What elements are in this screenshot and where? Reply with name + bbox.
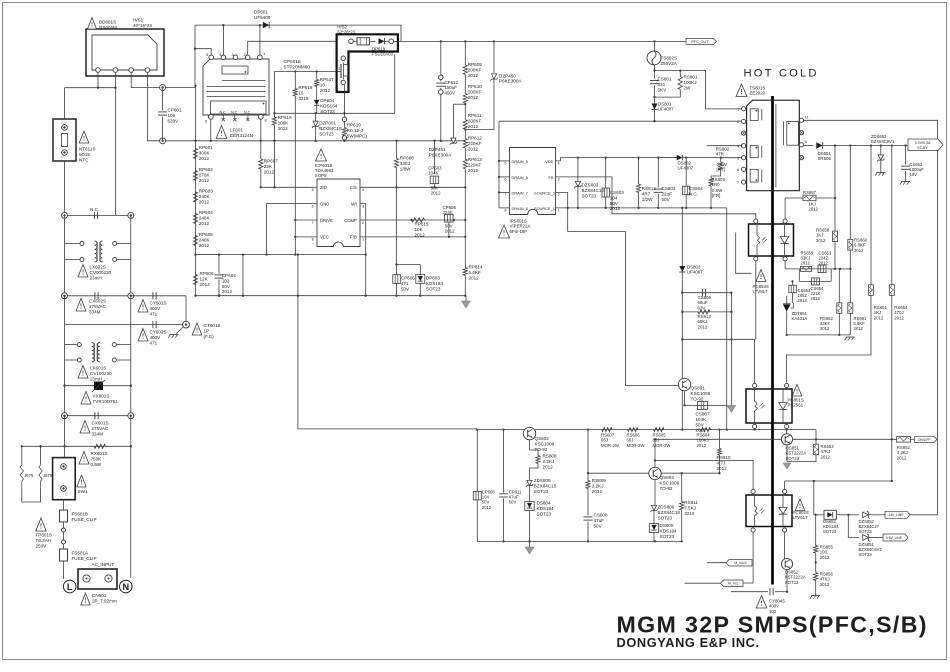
svg-text:KSC1008: KSC1008 <box>535 441 555 446</box>
svg-text:334M: 334M <box>92 431 104 436</box>
svg-text:2012: 2012 <box>482 505 492 510</box>
wire aux line y254 <box>196 254 366 256</box>
svg-text:2.2KJ: 2.2KJ <box>592 483 604 488</box>
resistor RP608 330J 1/8W <box>396 141 398 159</box>
bridge rectifier BD601S heatsink H/S1 <box>86 29 164 76</box>
net label PFC_OUT <box>686 38 717 44</box>
diode DS651 SR506 <box>804 145 813 147</box>
earth terminal GT601S 1P (F.G) <box>185 296 187 325</box>
svg-text:RP619: RP619 <box>347 123 361 128</box>
svg-text:DP604: DP604 <box>320 98 334 103</box>
svg-text:1: 1 <box>338 67 340 71</box>
capacitor CX601S 275VAC 334M <box>64 386 66 416</box>
svg-text:2012: 2012 <box>431 191 441 196</box>
wire QS803 base line <box>588 472 720 474</box>
wire NTC bottom to L rail <box>64 161 66 215</box>
svg-text:ZID: ZID <box>320 185 327 190</box>
resistor RS856 47KJ <box>814 573 818 581</box>
wire drains to transformer pin2 <box>498 121 500 208</box>
svg-text:P6KE300A: P6KE300A <box>499 79 522 84</box>
resistor RP605 240K <box>193 236 197 246</box>
L rail segment <box>64 244 66 296</box>
op-amp IC ICP601S TDA4863 SOP8 <box>316 149 327 161</box>
wire VCC pin8 <box>295 236 317 238</box>
wire QS851 base / ON-OFF line <box>655 438 781 440</box>
resistor RS652 3.3KJ <box>897 437 911 443</box>
svg-text:LTV817: LTV817 <box>753 289 769 294</box>
resistor RS658 1KJ <box>834 198 836 231</box>
svg-text:BD601S: BD601S <box>99 20 116 25</box>
svg-text:10K: 10K <box>415 227 424 232</box>
svg-text:2012: 2012 <box>801 261 811 266</box>
varistor VX601S TVR10D751 <box>64 345 66 386</box>
svg-text:SOT23: SOT23 <box>537 511 552 516</box>
svg-text:EE2020: EE2020 <box>750 91 766 96</box>
svg-text:RP618: RP618 <box>298 85 312 90</box>
svg-text:FS601B: FS601B <box>72 512 89 517</box>
wire transformer pin4 stub <box>707 145 742 147</box>
svg-text:2012: 2012 <box>610 206 621 211</box>
capacitor CP608 104 50V <box>476 430 478 492</box>
wire bridge T1 T2 to NTC line <box>97 72 99 87</box>
svg-text:2012: 2012 <box>698 324 708 329</box>
capacitor CS801 331 5KV <box>653 69 655 71</box>
ground arrow sub <box>529 541 531 547</box>
diode DP601 UF5406 <box>263 22 269 28</box>
svg-text:BZX84C15: BZX84C15 <box>534 483 557 488</box>
svg-text:SOT23: SOT23 <box>823 529 837 534</box>
transistor QS801 KSC1008 TO-92 <box>678 378 690 390</box>
svg-text:50V: 50V <box>594 523 603 528</box>
svg-text:DP601: DP601 <box>254 10 268 15</box>
optocoupler PC801S PS2561 <box>746 389 792 423</box>
wire FB pin3 to optocoupler <box>556 177 756 219</box>
transformer TS801S EE2020 <box>736 84 747 97</box>
resistor RS657 1KJ pull-up <box>784 198 786 219</box>
svg-text:DRIVE: DRIVE <box>320 218 333 223</box>
wire fuse to L terminal <box>63 561 65 579</box>
svg-text:NTC: NTC <box>79 157 89 162</box>
svg-text:MOR-2W: MOR-2W <box>627 443 646 448</box>
optocoupler PC853S LTV817 <box>749 224 794 256</box>
svg-text:RS809: RS809 <box>592 478 606 483</box>
svg-text:2012: 2012 <box>811 296 821 301</box>
svg-text:22uF: 22uF <box>662 191 673 196</box>
svg-text:2W: 2W <box>684 85 692 90</box>
svg-text:AC_INPUT: AC_INPUT <box>92 562 115 567</box>
resistor RS662 33KF <box>838 269 840 303</box>
resistor RS653 47KJ <box>815 430 817 444</box>
wire NTC top to bridge <box>64 88 66 119</box>
svg-text:3: 3 <box>558 178 560 182</box>
svg-text:RP610: RP610 <box>468 84 482 89</box>
resistor RP616 100K <box>273 72 275 118</box>
svg-text:T6.3AH: T6.3AH <box>36 538 52 543</box>
wire bottom bus <box>477 429 816 431</box>
svg-text:M_Vcc2: M_Vcc2 <box>734 561 746 565</box>
svg-text:2: 2 <box>558 193 560 197</box>
resistor RS654 470J <box>891 146 893 285</box>
zener ZDS806 BZX84C18 SOT23 <box>654 480 656 506</box>
core line <box>775 104 777 188</box>
svg-text:5.0V/0.3A: 5.0V/0.3A <box>915 141 931 145</box>
svg-text:100K: 100K <box>278 120 290 125</box>
resistor RP618 15 3216 <box>294 72 296 89</box>
svg-text:RP603: RP603 <box>199 189 213 194</box>
svg-text:2012: 2012 <box>199 243 210 248</box>
svg-text:400V: 400V <box>150 306 162 311</box>
svg-text:DRAIN_5: DRAIN_5 <box>512 159 528 164</box>
svg-text:2012: 2012 <box>320 88 331 93</box>
svg-text:STP20NM60: STP20NM60 <box>284 64 311 69</box>
wire opto3 left bottom to M_Vcc <box>743 532 753 583</box>
svg-text:11: 11 <box>805 114 809 119</box>
wire VDD pin4 <box>556 158 678 161</box>
connector terminal <box>160 138 166 144</box>
capacitor CS806 68uF 63V <box>682 292 731 294</box>
label BD601S <box>88 18 97 30</box>
wire opto2 right bottom to QS851 <box>786 429 788 434</box>
svg-text:47uF: 47uF <box>594 518 605 523</box>
svg-text:0.5W: 0.5W <box>91 462 102 467</box>
svg-text:450V: 450V <box>445 90 455 95</box>
wire top rail to PFC_OUT <box>401 40 686 42</box>
resistor RP601 300K <box>193 149 197 159</box>
svg-text:6: 6 <box>737 167 739 172</box>
svg-text:BZX84C9V1: BZX84C9V1 <box>871 139 895 144</box>
svg-text:CS807: CS807 <box>696 412 710 417</box>
diode DS652 KDS184 SOT23 <box>813 481 815 515</box>
svg-text:1: 1 <box>362 238 364 242</box>
svg-text:SOT23: SOT23 <box>426 286 441 291</box>
svg-text:220KF: 220KF <box>468 141 482 146</box>
svg-text:QS801: QS801 <box>691 386 706 391</box>
capacitor CS652 1000uF 10V <box>905 146 907 165</box>
svg-text:8: 8 <box>312 238 314 242</box>
svg-text:CP601: CP601 <box>168 108 182 113</box>
svg-text:DS804: DS804 <box>537 501 551 506</box>
svg-text:FS802S: FS802S <box>661 56 678 61</box>
resistor RS604 100KJ <box>700 428 711 432</box>
wire QS801 emitter <box>684 391 686 406</box>
svg-text:TO-92: TO-92 <box>535 447 548 452</box>
wire sub ground bus <box>477 540 682 542</box>
svg-text:471: 471 <box>150 311 158 316</box>
wire chain vertical <box>195 86 197 296</box>
svg-text:750K: 750K <box>91 456 103 461</box>
svg-text:CS603: CS603 <box>610 190 624 195</box>
resistor RS660 6.8KF <box>849 146 851 240</box>
svg-text:7: 7 <box>737 180 739 185</box>
svg-text:SOT23: SOT23 <box>534 489 549 494</box>
wire bus DC rail y141 <box>196 140 466 142</box>
svg-text:RS808: RS808 <box>543 454 557 459</box>
svg-text:LF601: LF601 <box>230 128 243 133</box>
svg-text:1: 1 <box>558 209 560 213</box>
resistor RS612 68KJ <box>682 311 731 313</box>
connector terminal N <box>128 212 134 218</box>
svg-text:300K: 300K <box>199 150 211 155</box>
svg-text:100KJ: 100KJ <box>684 80 697 85</box>
svg-text:2012: 2012 <box>445 229 455 234</box>
wire stub near PC853S <box>736 232 752 273</box>
svg-text:MOR-2W: MOR-2W <box>601 443 620 448</box>
svg-text:250V2A: 250V2A <box>661 61 678 66</box>
wire vertical x243 <box>242 255 244 296</box>
svg-text:4R7: 4R7 <box>642 191 651 196</box>
svg-text:SOT23: SOT23 <box>660 534 675 539</box>
resistor RS661 5.6KF <box>849 269 851 303</box>
svg-text:2012: 2012 <box>820 326 830 331</box>
svg-text:50V: 50V <box>662 197 671 202</box>
capacitor CS808 47uF 50V <box>584 516 593 518</box>
svg-text:2012: 2012 <box>854 248 864 253</box>
capacitor CX602S 275VAC 334M <box>65 295 131 297</box>
zener ZDS805 BZX84C15 SOT23 <box>527 480 532 485</box>
pin 8 of LF601 <box>258 114 263 119</box>
resistor RP611 200KF <box>463 120 467 130</box>
wire COMP pin2 <box>360 219 465 221</box>
svg-text:H/S1: H/S1 <box>133 18 144 23</box>
capacitor CP612 150uF 450V <box>440 41 442 75</box>
net label ON/OFF <box>911 438 915 440</box>
wire gate net lower rail <box>274 112 394 114</box>
svg-text:50V: 50V <box>610 201 619 206</box>
resistor chain RP609 200KF <box>464 41 466 65</box>
svg-text:BZX84C18: BZX84C18 <box>319 126 342 131</box>
transistor QS851 KST2222A SOT23 <box>781 434 792 445</box>
svg-text:5.6V_LINE: 5.6V_LINE <box>886 536 903 540</box>
wire SOURCE_1 return line <box>556 207 727 209</box>
svg-text:DZP451: DZP451 <box>429 147 446 152</box>
svg-text:200KF: 200KF <box>468 89 482 94</box>
net label 5.6V_LINE <box>883 534 908 541</box>
svg-text:CS801: CS801 <box>658 77 672 82</box>
svg-text:RP609: RP609 <box>468 62 482 67</box>
svg-text:104K: 104K <box>428 171 438 176</box>
capacitor CS802 22uF 50V <box>657 158 659 188</box>
svg-text:RS810: RS810 <box>717 455 731 460</box>
wire to standby transformer pin1 <box>680 71 741 109</box>
svg-text:2012: 2012 <box>854 326 864 331</box>
svg-text:200KF: 200KF <box>468 67 482 72</box>
svg-text:2012: 2012 <box>543 464 554 469</box>
svg-text:22K: 22K <box>264 164 273 169</box>
svg-text:2012: 2012 <box>468 124 479 129</box>
svg-text:COMP: COMP <box>344 218 357 223</box>
resistor RS810 4.7J <box>719 430 721 449</box>
L rail down <box>64 215 66 243</box>
svg-text:KDS184: KDS184 <box>660 528 678 533</box>
svg-text:FB: FB <box>549 175 554 180</box>
svg-text:FUSE_CLIP: FUSE_CLIP <box>72 556 97 561</box>
svg-text:(F.G): (F.G) <box>204 334 215 339</box>
svg-text:220KF: 220KF <box>468 162 482 167</box>
wire bridge T4 to RP601 chain <box>148 72 196 141</box>
wire RS657 to 5V <box>834 146 836 199</box>
transistor QS802 KSC1008 TO-92 <box>523 427 535 439</box>
zener DZS603 BZX84C10 SOT23 <box>577 158 579 182</box>
thermistor NT611S <box>53 119 76 161</box>
svg-text:RX601S: RX601S <box>91 451 108 456</box>
diode DP603 KDS184 SOT23 <box>419 265 421 275</box>
svg-text:RS657: RS657 <box>803 190 817 195</box>
svg-text:ON/OFF: ON/OFF <box>918 438 931 442</box>
svg-text:SOT23: SOT23 <box>859 552 873 557</box>
net label M_Vcc2 <box>726 560 752 567</box>
svg-text:VCC: VCC <box>320 235 329 240</box>
svg-text:7.5KJ: 7.5KJ <box>684 505 696 510</box>
svg-text:4: 4 <box>362 188 364 192</box>
resistor RS801 100KJ 2W <box>655 70 681 72</box>
svg-text:270K: 270K <box>199 172 211 177</box>
svg-text:RP602: RP602 <box>199 167 213 172</box>
svg-text:SOT23: SOT23 <box>319 131 334 136</box>
svg-text:TO-92: TO-92 <box>691 396 704 401</box>
svg-text:N.C: N.C <box>244 111 251 115</box>
capacitor CS603 104 50V <box>605 158 607 188</box>
net label 24V_LINE <box>885 511 910 518</box>
zener DZS851 BZX84C6V2 SOT23 <box>848 515 859 538</box>
svg-text:1/2W: 1/2W <box>642 197 653 202</box>
svg-text:GND: GND <box>320 202 329 207</box>
wire pin11 to 24V rail <box>804 120 938 515</box>
resistor RP612 220KF <box>463 139 467 149</box>
svg-text:DRAIN_7: DRAIN_7 <box>512 190 528 195</box>
svg-text:P6KE300A: P6KE300A <box>429 153 452 158</box>
svg-text:63V: 63V <box>698 305 706 310</box>
svg-text:BZX84C18: BZX84C18 <box>658 510 681 515</box>
svg-text:SW1: SW1 <box>78 489 88 494</box>
resistor RS802 47R 0.5W [FR] <box>720 158 722 162</box>
svg-text:DRAIN_6: DRAIN_6 <box>512 175 528 180</box>
wire pin6 down <box>210 119 212 141</box>
svg-text:2012: 2012 <box>468 95 479 100</box>
capacitor CS807 104K 50V <box>685 404 729 406</box>
svg-text:400V: 400V <box>150 335 162 340</box>
feedback ground line <box>787 334 851 336</box>
svg-text:SOP8: SOP8 <box>315 173 327 178</box>
svg-text:R0.12-J: R0.12-J <box>347 128 363 133</box>
heatsink H/S2 62*26*23 <box>337 34 398 92</box>
svg-text:TO-92: TO-92 <box>660 486 673 491</box>
svg-text:J675: J675 <box>43 473 53 478</box>
shunt regulator ZDT651 KA431A <box>783 305 791 312</box>
svg-text:2012: 2012 <box>468 73 479 78</box>
svg-text:M_Vcc: M_Vcc <box>728 582 739 586</box>
svg-text:224K: 224K <box>443 210 453 215</box>
svg-text:334M: 334M <box>89 309 101 314</box>
capacitor CP601 105 630V <box>162 88 164 111</box>
svg-text:2: 2 <box>737 119 739 124</box>
resistor RS808 2.2KJ <box>530 440 539 456</box>
svg-text:MGM 32P SMPS(PFC,S/B): MGM 32P SMPS(PFC,S/B) <box>617 612 928 638</box>
svg-text:KDS184: KDS184 <box>537 506 555 511</box>
capacitor CS804 N.C. <box>685 158 687 186</box>
svg-text:40*15*23: 40*15*23 <box>133 23 152 28</box>
svg-text:3216: 3216 <box>684 511 695 516</box>
fuse clip FS601A <box>63 544 65 549</box>
svg-text:N.C.: N.C. <box>90 207 99 212</box>
svg-text:CP604: CP604 <box>222 273 236 278</box>
IC IPS601S VIPER22A 6Pin-DIP <box>510 148 556 215</box>
svg-text:FP601S: FP601S <box>36 533 53 538</box>
capacitor CP603 104K 50V <box>434 141 436 174</box>
svg-text:7: 7 <box>504 193 506 197</box>
svg-text:1P: 1P <box>204 328 210 333</box>
wire ground bus y296 <box>196 295 467 297</box>
svg-text:RP612: RP612 <box>468 136 482 141</box>
ground arrow <box>727 405 736 412</box>
svg-text:RP607: RP607 <box>264 159 278 164</box>
svg-text:RP617: RP617 <box>320 77 334 82</box>
N.C. pins of LF601 <box>222 115 224 120</box>
svg-text:5D15: 5D15 <box>79 152 90 157</box>
svg-text:QS802: QS802 <box>535 436 550 441</box>
svg-text:1/8W: 1/8W <box>400 166 411 171</box>
N rail down <box>130 215 132 243</box>
svg-text:LTV617: LTV617 <box>793 515 809 520</box>
fuse clip FS601B <box>63 500 65 510</box>
svg-text:24V_LINE: 24V_LINE <box>888 513 904 517</box>
svg-text:2012: 2012 <box>222 289 233 294</box>
svg-text:275VAC: 275VAC <box>92 426 109 431</box>
svg-text:62*26*23: 62*26*23 <box>337 30 355 35</box>
resistor RS605 66J MOR-2W <box>654 428 665 432</box>
zener DZP450 P6KE300A <box>493 41 495 73</box>
svg-text:5: 5 <box>504 162 506 166</box>
svg-text:LX602S: LX602S <box>90 265 106 270</box>
svg-text:CN601: CN601 <box>92 593 107 598</box>
svg-text:2.2KJ: 2.2KJ <box>543 459 555 464</box>
svg-text:275VAC: 275VAC <box>89 304 106 309</box>
svg-text:2012: 2012 <box>200 282 211 287</box>
svg-text:KSC1008: KSC1008 <box>660 480 680 485</box>
resistor RX601S 750K 0.5W <box>94 444 106 448</box>
wire N.C. link line <box>65 214 131 216</box>
svg-text:2012: 2012 <box>592 489 603 494</box>
svg-text:5KV: 5KV <box>658 87 668 92</box>
wire bridge T2 down <box>114 72 116 215</box>
svg-text:47R: 47R <box>716 152 724 157</box>
svg-text:CP605: CP605 <box>401 276 415 281</box>
svg-text:NT611S: NT611S <box>79 147 96 152</box>
svg-text:UF4007: UF4007 <box>678 166 694 171</box>
svg-text:ZDS806: ZDS806 <box>658 505 675 510</box>
wire GND pin6 <box>267 204 318 255</box>
resistor RP606 12K <box>193 275 197 285</box>
svg-text:2012: 2012 <box>264 169 275 174</box>
svg-text:RS801: RS801 <box>684 75 698 80</box>
svg-text:VDD: VDD <box>545 159 553 164</box>
svg-text:2012: 2012 <box>415 232 426 237</box>
capacitor CP611 47uF 50V <box>503 430 505 493</box>
label LF601 EER3124N <box>216 126 227 139</box>
diode DS802 UF4007 <box>660 157 677 159</box>
primary winding 1-2 <box>750 109 758 121</box>
wire bottom aux line <box>731 591 768 593</box>
resistor RS811 7.5KJ 3216 <box>681 473 683 501</box>
wire opto2 left pins <box>754 339 756 383</box>
svg-text:23mH: 23mH <box>90 275 102 280</box>
svg-text:SOT23: SOT23 <box>786 456 800 461</box>
svg-text:471: 471 <box>401 281 409 286</box>
svg-text:LX601S: LX601S <box>90 366 106 371</box>
choke LX601S CV100230 23mH <box>64 325 66 345</box>
svg-text:F/B: F/B <box>350 235 357 240</box>
transistor QS803 KSC1008 TO-92 <box>649 467 661 479</box>
svg-text:J676: J676 <box>24 473 34 478</box>
